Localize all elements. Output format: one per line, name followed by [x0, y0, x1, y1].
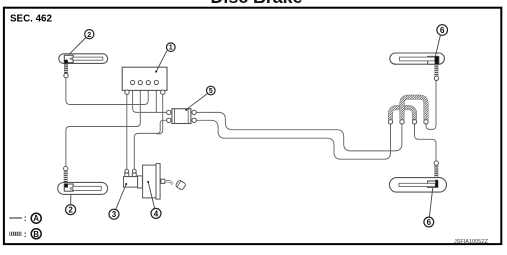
svg-text:6: 6 [440, 25, 445, 35]
svg-text:6: 6 [427, 218, 432, 227]
svg-text::: : [24, 213, 27, 223]
svg-text:4: 4 [154, 209, 159, 218]
svg-text:5: 5 [209, 86, 213, 95]
svg-text:3: 3 [112, 210, 117, 219]
svg-text:Disc Brake: Disc Brake [211, 0, 303, 7]
svg-text:1: 1 [169, 43, 173, 52]
svg-text::: : [24, 229, 27, 239]
svg-text:2: 2 [68, 206, 73, 215]
svg-text:2: 2 [87, 30, 91, 39]
svg-text:B: B [33, 230, 39, 239]
svg-text:JSFIA1005ZZ: JSFIA1005ZZ [454, 239, 489, 245]
svg-text:SEC. 462: SEC. 462 [10, 13, 52, 24]
svg-text:A: A [33, 214, 39, 223]
